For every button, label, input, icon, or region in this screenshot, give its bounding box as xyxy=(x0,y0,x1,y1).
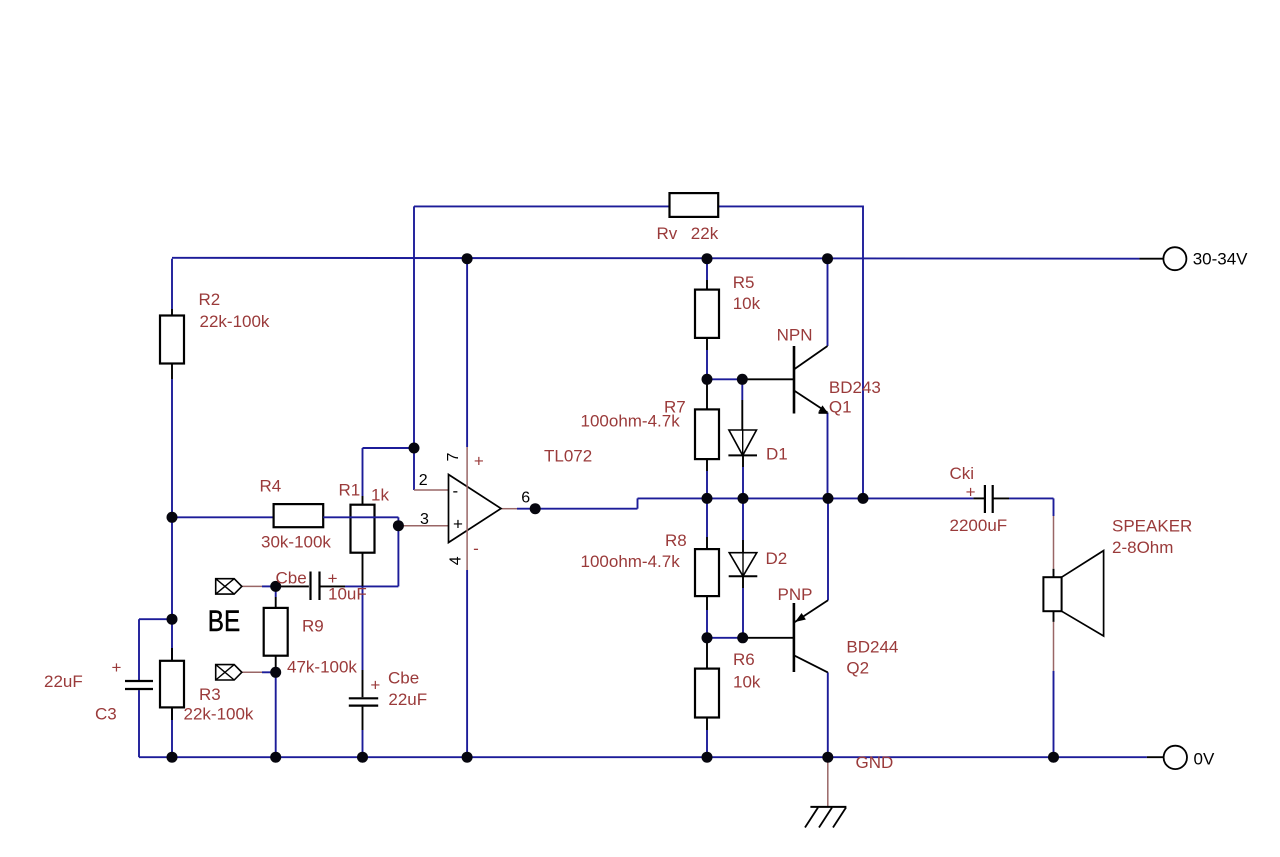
svg-text:Cbe: Cbe xyxy=(276,569,307,588)
svg-text:22uF: 22uF xyxy=(388,690,427,709)
svg-text:Rv: Rv xyxy=(657,224,678,243)
svg-text:-: - xyxy=(473,539,479,558)
svg-text:+: + xyxy=(474,451,484,470)
svg-text:TL072: TL072 xyxy=(544,447,592,466)
svg-text:SPEAKER: SPEAKER xyxy=(1112,516,1192,535)
svg-text:R2: R2 xyxy=(199,290,221,309)
svg-text:4: 4 xyxy=(447,556,464,565)
svg-text:BE: BE xyxy=(208,605,240,638)
svg-text:+: + xyxy=(966,483,976,502)
svg-text:NPN: NPN xyxy=(777,326,813,345)
svg-text:100ohm-4.7k: 100ohm-4.7k xyxy=(581,412,681,431)
svg-text:0V: 0V xyxy=(1194,749,1215,768)
svg-text:30-34V: 30-34V xyxy=(1193,249,1248,268)
svg-text:1k: 1k xyxy=(371,486,389,505)
svg-text:D2: D2 xyxy=(766,549,788,568)
svg-text:Cbe: Cbe xyxy=(388,669,419,688)
svg-text:22k-100k: 22k-100k xyxy=(200,312,270,331)
svg-text:2-8Ohm: 2-8Ohm xyxy=(1112,538,1173,557)
svg-text:Q2: Q2 xyxy=(846,658,869,677)
svg-text:3: 3 xyxy=(420,511,429,528)
svg-text:R3: R3 xyxy=(199,685,221,704)
svg-text:100ohm-4.7k: 100ohm-4.7k xyxy=(581,552,681,571)
svg-text:10k: 10k xyxy=(733,294,761,313)
svg-text:R4: R4 xyxy=(260,477,282,496)
svg-text:7: 7 xyxy=(445,453,462,462)
svg-text:C3: C3 xyxy=(95,705,117,724)
svg-text:+: + xyxy=(370,676,380,695)
svg-text:30k-100k: 30k-100k xyxy=(261,532,331,551)
svg-text:+: + xyxy=(453,515,463,534)
svg-text:D1: D1 xyxy=(766,445,788,464)
svg-text:R6: R6 xyxy=(733,650,755,669)
svg-text:47k-100k: 47k-100k xyxy=(287,658,357,677)
svg-text:R9: R9 xyxy=(302,617,324,636)
svg-text:R1: R1 xyxy=(339,481,361,500)
svg-text:BD243: BD243 xyxy=(829,378,881,397)
svg-text:22k-100k: 22k-100k xyxy=(184,705,254,724)
svg-text:GND: GND xyxy=(856,753,894,772)
svg-text:6: 6 xyxy=(521,490,530,507)
svg-text:Q1: Q1 xyxy=(829,397,852,416)
svg-text:10k: 10k xyxy=(733,672,761,691)
svg-text:2200uF: 2200uF xyxy=(950,516,1008,535)
svg-text:BD244: BD244 xyxy=(846,637,898,656)
svg-text:22k: 22k xyxy=(691,224,719,243)
svg-text:-: - xyxy=(452,482,458,501)
svg-text:PNP: PNP xyxy=(778,585,813,604)
svg-text:R5: R5 xyxy=(733,273,755,292)
svg-text:+: + xyxy=(112,658,122,677)
svg-text:Cki: Cki xyxy=(950,464,975,483)
svg-text:2: 2 xyxy=(419,472,428,489)
svg-text:+: + xyxy=(328,569,338,588)
svg-text:22uF: 22uF xyxy=(44,672,83,691)
svg-text:R8: R8 xyxy=(665,531,687,550)
